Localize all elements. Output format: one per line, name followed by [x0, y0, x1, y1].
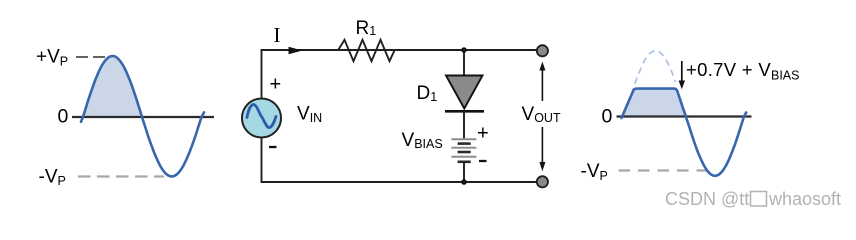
current arrow head on top wire [289, 47, 303, 54]
clip-level down arrow [681, 61, 683, 82]
svg-text:VIN: VIN [297, 103, 322, 125]
node: left -Vp dashed level line [78, 175, 164, 177]
Vout arrow upper segment with up arrowhead [541, 69, 543, 101]
wire: diode branch vertical top stub [463, 50, 465, 76]
svg-text:whaosoft: whaosoft [768, 189, 841, 209]
junction node dot at top of diode branch [461, 47, 467, 53]
wire: bottom horizontal from source to output terminal [261, 181, 537, 183]
svg-text:+0.7V + VBIAS: +0.7V + VBIAS [686, 59, 799, 82]
battery plate short 3 [458, 161, 471, 164]
node: left input sine wave stroke [81, 56, 204, 177]
watermark CJK tofu box [751, 192, 767, 207]
ac source inner sine [247, 105, 276, 128]
wire: left vertical above source [261, 49, 263, 99]
node: right time axis [617, 115, 752, 117]
wire: battery to bottom wire [463, 162, 465, 182]
battery plate short 1 [458, 142, 471, 145]
node: right clipped output waveform stroke [622, 89, 747, 176]
svg-text:D1: D1 [417, 83, 438, 104]
diode D1 cathode bar [445, 110, 484, 113]
svg-text:VBIAS: VBIAS [402, 130, 443, 151]
node: left +Vp dashed level line [76, 56, 106, 58]
battery plate short 2 [458, 151, 471, 154]
svg-text:I: I [274, 23, 281, 47]
svg-text:0: 0 [58, 105, 69, 127]
ac source V_IN circle [242, 99, 281, 138]
svg-text:-VP: -VP [39, 166, 66, 188]
diode D1 triangle (anode) [446, 76, 483, 109]
wire: left vertical below source [261, 138, 263, 183]
Vout arrow lower segment with down arrowhead [541, 127, 543, 164]
svg-text:CSDN @tt: CSDN @tt [665, 189, 749, 209]
svg-text:+: + [270, 74, 282, 96]
output terminal bottom [537, 176, 548, 187]
battery plate long 2 [451, 147, 476, 149]
svg-text:VOUT: VOUT [522, 104, 561, 125]
node: right waveform clipped lobe fill [622, 89, 689, 118]
svg-text:+VP: +VP [36, 47, 68, 69]
node: dashed unclipped sine peak arc [632, 51, 676, 95]
wire: between diode and battery [463, 111, 465, 139]
resistor R1 zigzag [338, 40, 395, 61]
junction node dot at bottom of diode branch [461, 179, 467, 185]
output terminal top [537, 45, 548, 56]
label - of source [269, 146, 277, 148]
label - of battery [479, 160, 487, 162]
svg-text:+: + [477, 123, 489, 145]
node: left time axis [72, 116, 214, 118]
svg-text:-VP: -VP [581, 161, 608, 183]
svg-text:0: 0 [602, 105, 613, 127]
wire: top horizontal from source to output terminal [261, 49, 538, 51]
node: right -Vp dashed level line [619, 169, 715, 171]
node: left waveform shaded positive half-cycle fill [83, 56, 142, 117]
svg-text:R1: R1 [356, 18, 377, 39]
battery V_BIAS plate long 1 [451, 138, 476, 140]
battery plate long 3 [451, 156, 476, 158]
